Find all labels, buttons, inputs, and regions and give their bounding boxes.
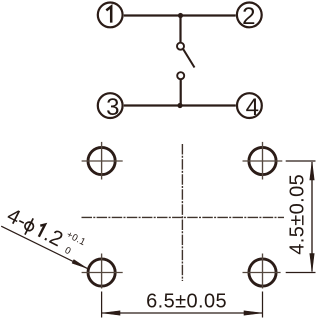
svg-text:4: 4 — [246, 94, 259, 121]
svg-text:4.5±0.05: 4.5±0.05 — [287, 174, 309, 255]
svg-text:6.5±0.05: 6.5±0.05 — [146, 291, 227, 313]
svg-text:2: 2 — [242, 3, 255, 30]
svg-text:3: 3 — [106, 94, 119, 121]
